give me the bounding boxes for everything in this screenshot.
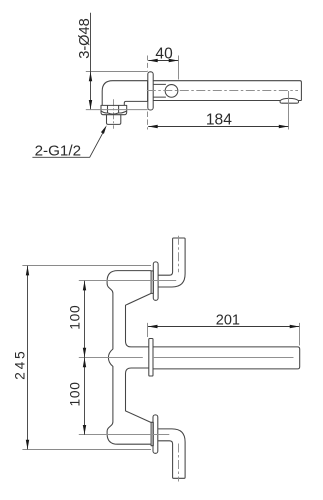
- elbow centerline: [113, 99, 115, 128]
- svg-text:201: 201: [216, 313, 240, 329]
- dim 3-O48 line: [90, 13, 92, 110]
- dim 201 extension lines: [148, 323, 300, 346]
- svg-text:3-Ø48: 3-Ø48: [77, 18, 93, 59]
- wall flange (side view): [148, 72, 153, 110]
- dim 245 line: [27, 266, 29, 450]
- dim 201 arrows: [148, 325, 299, 328]
- middle wall flange: [149, 339, 153, 377]
- bottom supply elbow: [158, 429, 185, 478]
- dim 40 extension lines: [147, 56, 149, 71]
- top supply elbow: [158, 238, 185, 287]
- bottom arm boss: [151, 422, 153, 445]
- spout elbow body: [102, 81, 147, 106]
- top elbow centerline vertical: [178, 236, 180, 272]
- top arm boss: [151, 271, 153, 294]
- bottom elbow centerline vertical: [178, 444, 180, 482]
- nut facet arcs: [101, 111, 126, 114]
- bottom arm centerline: [79, 434, 170, 436]
- aerator tray: [280, 101, 299, 104]
- svg-text:100: 100: [68, 305, 83, 330]
- dim 245 extension lines: [22, 266, 151, 450]
- dim 100 upper arrows: [83, 281, 86, 357]
- body left profile: [107, 271, 151, 445]
- spout hub circle: [165, 85, 178, 98]
- body right profile lower: [126, 368, 152, 423]
- svg-text:100: 100: [68, 381, 83, 406]
- svg-text:245: 245: [12, 348, 27, 379]
- spout hub lines: [153, 84, 166, 97]
- threaded stub: [107, 115, 121, 125]
- dim 40 arrows: [148, 59, 178, 62]
- dim 184 line: [148, 126, 288, 128]
- dim 3-O48 extension lines: [86, 72, 148, 110]
- spout tube bottom edge: [153, 100, 301, 102]
- spout tube centerline: [79, 357, 294, 359]
- label 2-G1/2 leader: [32, 130, 104, 158]
- spout centerline: [147, 90, 298, 92]
- dim 100 upper line: [84, 281, 86, 358]
- dim 201 line: [148, 326, 299, 328]
- dim 100 lower arrows: [83, 358, 86, 435]
- dim 100 lower line: [84, 358, 86, 435]
- spout tube top edge: [153, 81, 301, 101]
- top arm centerline: [79, 280, 176, 282]
- dim 184 arrows: [148, 125, 288, 128]
- aerator dome: [280, 98, 298, 100]
- label 2-G1/2 arrowhead: [101, 125, 107, 134]
- dim 40 line: [148, 60, 178, 62]
- hex nut: [101, 105, 127, 114]
- nut facet lines: [108, 105, 119, 112]
- body right profile upper (cone + edge to middle arm): [126, 293, 152, 347]
- bottom wall flange: [153, 415, 158, 453]
- svg-text:40: 40: [155, 46, 173, 63]
- dim 184 extension lines: [147, 112, 149, 130]
- svg-text:2-G1/2: 2-G1/2: [35, 142, 81, 159]
- svg-text:184: 184: [206, 112, 232, 129]
- dim 245 arrows: [26, 266, 29, 449]
- spout tube (plan): [153, 347, 300, 369]
- top wall flange: [153, 262, 158, 300]
- dim 3-O48 arrows: [89, 72, 92, 110]
